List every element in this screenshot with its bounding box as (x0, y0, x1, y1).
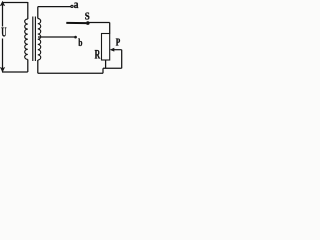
wire rheostat slider vertical (121, 50, 123, 69)
transformer primary coil (25, 19, 28, 59)
wire secondary centre tap to terminal b (38, 36, 74, 38)
wire step up at x=103 (102, 68, 104, 73)
rheostat slider arrow line (113, 49, 122, 51)
wire secondary bottom lead (37, 60, 39, 73)
wire right vertical down to R (109, 23, 111, 34)
wire top horizontal (input to primary) (2, 2, 28, 4)
svg-text:P: P (116, 37, 121, 49)
wire left vertical lower (input) (2, 39, 4, 72)
wire switch to right corner (89, 22, 109, 24)
svg-text:S: S (85, 11, 90, 23)
transformer core line left (32, 17, 34, 62)
wire bottom horizontal (secondary loop) (38, 72, 103, 74)
wire secondary top lead (37, 7, 39, 19)
svg-text:R: R (95, 48, 101, 62)
node a terminal circle (71, 5, 73, 7)
wire secondary top to terminal a (38, 6, 71, 8)
transformer core line right (34, 17, 36, 62)
voltage U down arrowhead (0, 67, 5, 73)
wire bottom horizontal (primary loop) (2, 71, 28, 73)
wire lower right horizontal (103, 67, 122, 69)
wire left vertical upper (input) (2, 3, 4, 27)
svg-text:a: a (74, 0, 79, 11)
wire resistor R bottom stub (105, 60, 107, 68)
resistor R box (102, 34, 110, 61)
svg-text:b: b (78, 38, 82, 49)
wire primary bottom lead (27, 60, 29, 73)
rheostat slider arrowhead (110, 48, 115, 52)
switch S pivot dot (86, 21, 90, 25)
svg-text:U: U (1, 25, 6, 40)
wire primary top lead (27, 2, 29, 19)
switch S lever (66, 22, 86, 24)
voltage U up arrowhead (0, 1, 5, 7)
node b terminal dot (74, 36, 77, 39)
transformer secondary coil (38, 19, 41, 61)
